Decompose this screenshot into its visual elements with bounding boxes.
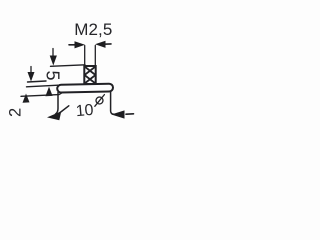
svg-text:10: 10 [75,102,94,120]
M2.5 right arrowhead [95,41,106,48]
svg-text:2: 2 [7,108,25,117]
5-dim top arrowhead (down) [50,56,57,66]
diameter left arrowhead [47,111,61,120]
stud thread hatch lower X [85,75,96,84]
stud right extension line [94,46,96,67]
svg-text:5: 5 [42,71,62,81]
svg-text:M2,5: M2,5 [74,20,112,39]
5-dim top arrow stub [52,49,54,57]
2-dim top arrow stub [30,67,32,73]
M2.5 dimension line right tail [104,43,111,45]
5-dim top extension line L1 [51,65,86,67]
2-dim top arrowhead (down) [28,72,35,82]
diameter right tail dash [126,113,134,115]
2-dim bottom arrowhead (up) [23,94,30,103]
stud thread hatch upper X [85,67,96,76]
contact disc [57,84,113,93]
diameter left extension line [56,93,59,115]
M2.5 left arrowhead [75,41,86,48]
threaded stud body [84,66,95,84]
2-dim top extension line L2 [28,81,47,82]
stud left extension line [84,46,86,67]
M2.5 dimension line left tail [69,44,76,46]
diameter symbol circle [96,97,103,104]
diameter right arrowhead (left) [111,110,124,118]
diameter right extension line [111,92,118,114]
diameter left diagonal stub [60,106,69,113]
disc-top extension line L3 [27,85,59,87]
disc-bottom extension line L4 [21,92,63,96]
5-dim bottom arrowhead (up) [45,87,52,97]
diameter symbol slash [95,95,105,107]
